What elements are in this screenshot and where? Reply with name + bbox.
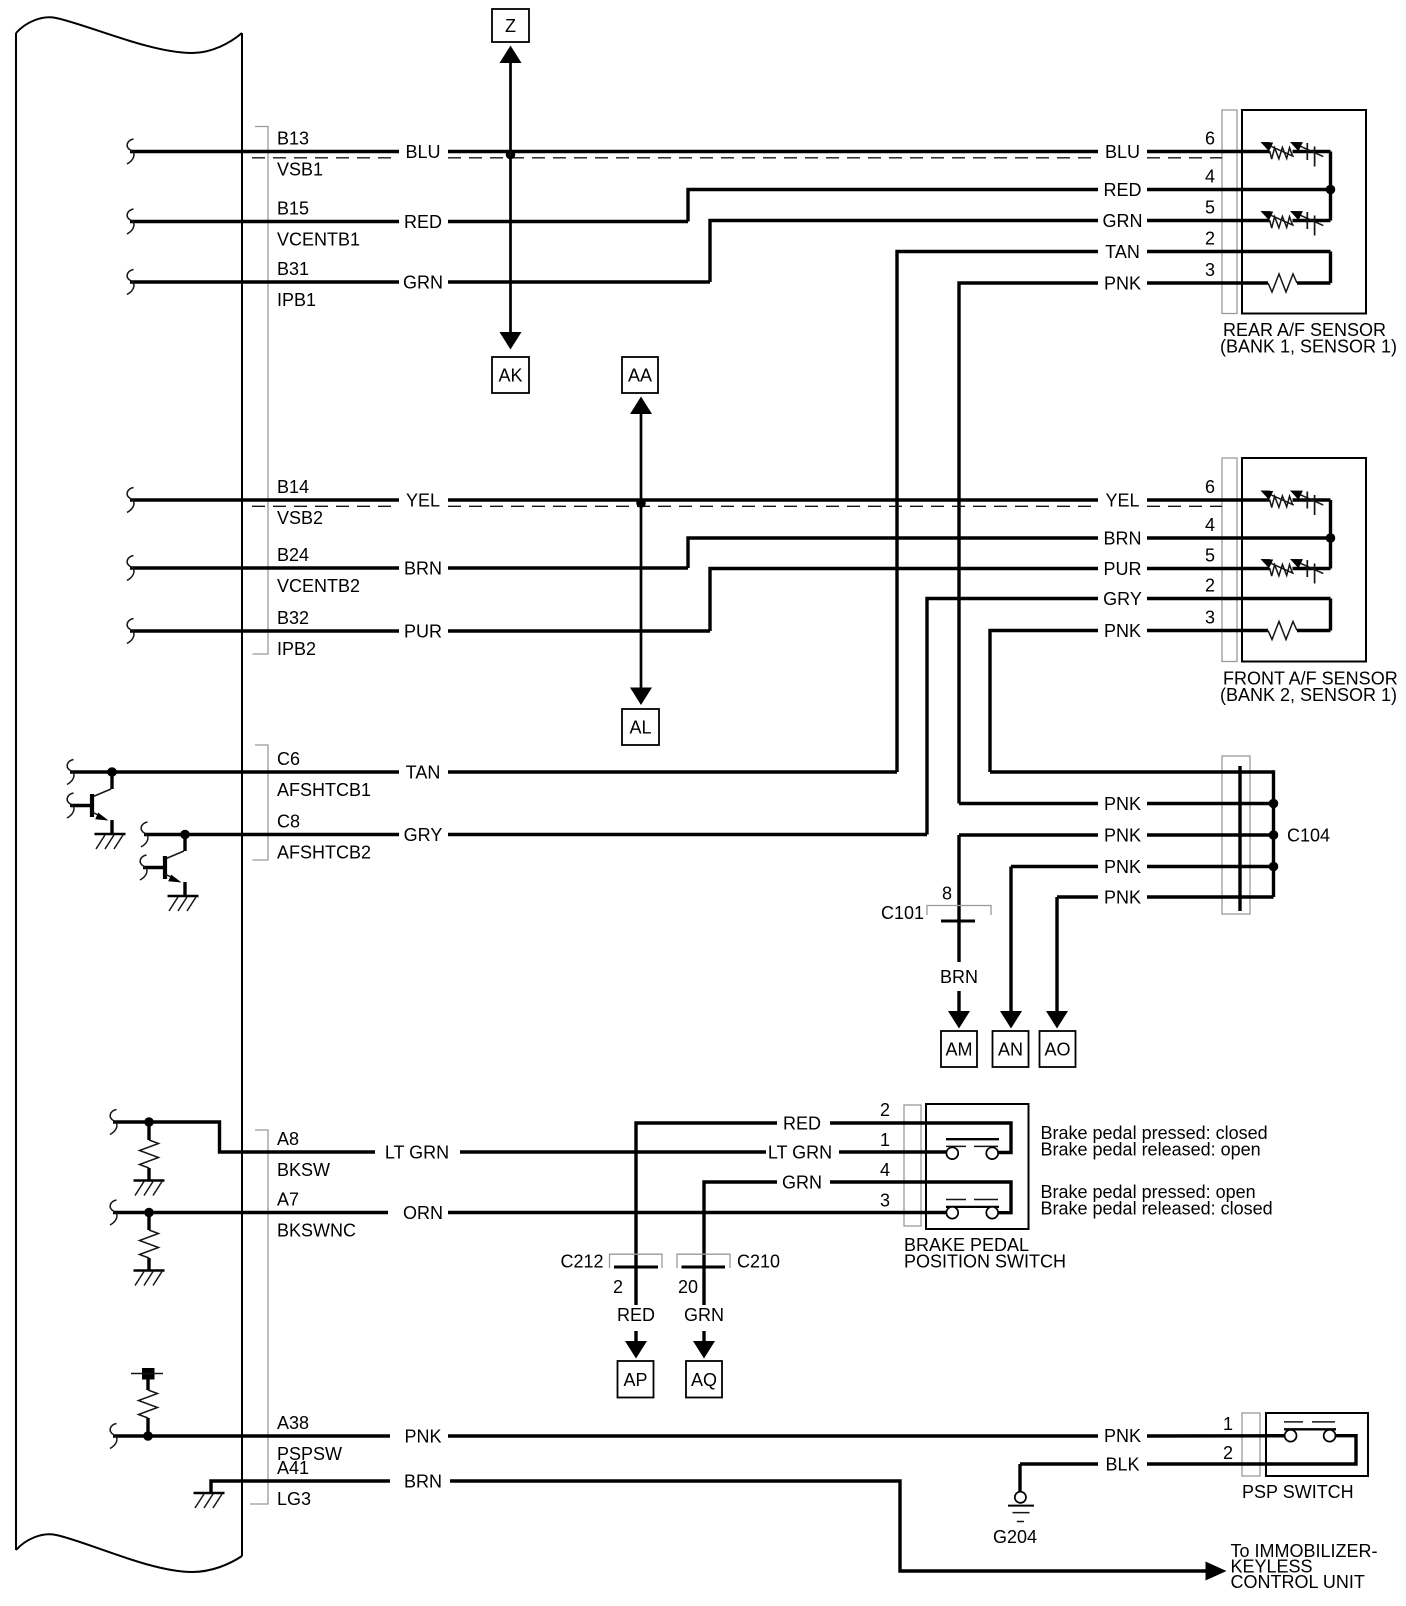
wire C8 AFSHTCB2 GRY row <box>144 833 399 836</box>
svg-text:G204: G204 <box>993 1527 1037 1547</box>
svg-text:C212: C212 <box>560 1252 603 1272</box>
BRAKE PEDAL POSITION SWITCH box <box>926 1104 1029 1229</box>
wire break mark A7 <box>110 1200 117 1225</box>
svg-text:3: 3 <box>1205 260 1215 280</box>
wire B14 VSB2 YEL (solid) <box>130 498 399 501</box>
svg-text:VSB2: VSB2 <box>277 508 323 528</box>
svg-text:RED: RED <box>783 1114 821 1134</box>
junction node C104 bus row1 <box>1269 799 1279 809</box>
wire BLK PSP pin2 to G204 <box>1020 1462 1098 1465</box>
reference box AQ <box>686 1361 722 1398</box>
svg-text:BRN: BRN <box>940 967 978 987</box>
wire A41 LG3 BRN to immobilizer <box>242 1479 390 1482</box>
svg-text:C8: C8 <box>277 812 300 832</box>
wire reference line Z-AK vertical <box>509 61 512 334</box>
svg-text:A41: A41 <box>277 1458 309 1478</box>
svg-text:PNK: PNK <box>1104 888 1141 908</box>
svg-text:AA: AA <box>628 366 652 386</box>
svg-text:5: 5 <box>1205 198 1215 218</box>
svg-text:AN: AN <box>998 1040 1023 1060</box>
FRONT A/F SENSOR box <box>1242 458 1366 662</box>
ECM module body (torn-edge box) <box>16 17 242 1572</box>
wire GRY front sensor pin2 to C8 column <box>1147 597 1242 600</box>
svg-text:(BANK 1, SENSOR 1): (BANK 1, SENSOR 1) <box>1220 337 1397 357</box>
svg-text:BLU: BLU <box>1105 142 1140 162</box>
svg-text:A7: A7 <box>277 1190 299 1210</box>
wire B24 VCENTB2 BRN <box>130 566 399 569</box>
svg-text:PNK: PNK <box>1104 1426 1141 1446</box>
svg-text:BRN: BRN <box>1103 529 1141 549</box>
resistor R3 zigzag <box>139 1390 158 1418</box>
wire break mark C6 <box>67 760 74 785</box>
resistor R2 zigzag <box>140 1230 159 1258</box>
wire A8 BKSW LT GRN <box>113 1122 375 1152</box>
wire break mark Q2 base <box>140 855 147 880</box>
svg-text:BLK: BLK <box>1105 1455 1139 1475</box>
wire PNK row 3 (to AN) <box>1011 865 1098 868</box>
svg-text:2: 2 <box>1205 576 1215 596</box>
wire break mark B13 <box>127 139 134 164</box>
svg-text:TAN: TAN <box>1105 242 1140 262</box>
svg-text:5: 5 <box>1205 546 1215 566</box>
junction node C8/collector <box>180 830 190 840</box>
wire C104 bus <box>1272 770 1275 897</box>
svg-text:YEL: YEL <box>406 491 440 511</box>
wire TAN rear sensor pin2 to C6 column <box>1147 250 1242 253</box>
ground (Q1 emitter) <box>95 834 126 849</box>
svg-text:RED: RED <box>404 212 442 232</box>
junction node A8 pull-up <box>144 1117 154 1127</box>
wire B13 VSB1 BLU (solid) <box>130 150 399 153</box>
svg-text:AM: AM <box>946 1040 973 1060</box>
wire PNK feed from front sensor through C104 <box>990 770 1274 773</box>
brake pedal position switch contact S1 (pins 2-1) <box>926 1123 1011 1159</box>
svg-text:RED: RED <box>1103 180 1141 200</box>
connector C104 pin bar <box>1238 766 1241 911</box>
arrow to AO <box>1046 1011 1068 1029</box>
brake pedal switch connector strip <box>904 1105 921 1226</box>
wire PNK/BRN drop to AM through C101 <box>957 835 960 962</box>
junction node BLU / Z-AK line <box>506 150 516 160</box>
wire B32 IPB2 PUR <box>130 629 399 632</box>
arrow to AQ <box>693 1341 715 1359</box>
wire GRN brake switch pin4 to C210/AQ <box>830 1180 926 1183</box>
svg-text:GRY: GRY <box>404 825 443 845</box>
svg-text:3: 3 <box>1205 608 1215 628</box>
svg-text:VCENTB2: VCENTB2 <box>277 576 360 596</box>
arrow to Z <box>500 46 522 64</box>
connector C104 strip <box>1222 756 1250 914</box>
svg-text:C6: C6 <box>277 749 300 769</box>
wire BLU stripe (dashed companion) <box>252 157 399 159</box>
svg-text:PNK: PNK <box>1104 621 1141 641</box>
wire PNK row 2 (to C101/AM) <box>959 833 1098 836</box>
wire PNK front sensor pin3 to C104 top feed <box>1147 629 1242 632</box>
svg-text:4: 4 <box>880 1160 890 1180</box>
front A/F sensor internal circuit <box>1242 500 1331 631</box>
svg-text:RED: RED <box>617 1305 655 1325</box>
wire PNK drop to AN <box>1009 867 1012 1013</box>
svg-text:AO: AO <box>1044 1040 1070 1060</box>
resistor R2 (BKSWNC pull-up) <box>147 1213 150 1231</box>
svg-text:A8: A8 <box>277 1129 299 1149</box>
junction node C6/collector <box>107 767 117 777</box>
rear A/F sensor connector strip <box>1222 110 1237 314</box>
ECM pin bracket A8-A41 <box>250 1130 268 1504</box>
svg-text:PNK: PNK <box>1104 274 1141 294</box>
arrow to AL (down) <box>630 688 652 706</box>
svg-text:1: 1 <box>1223 1414 1233 1434</box>
svg-text:PUR: PUR <box>1103 559 1141 579</box>
svg-text:VCENTB1: VCENTB1 <box>277 230 360 250</box>
ECM pin bracket C6-C8 <box>253 745 269 860</box>
front A/F sensor connector strip <box>1222 458 1237 662</box>
resistor rear sensor heater <box>1268 274 1297 292</box>
svg-text:VSB1: VSB1 <box>277 160 323 180</box>
svg-text:PNK: PNK <box>404 1427 441 1447</box>
svg-text:GRN: GRN <box>684 1305 724 1325</box>
svg-text:AK: AK <box>498 366 522 386</box>
wire break mark Q1 base <box>67 793 74 818</box>
junction node A7 pull-up <box>144 1208 154 1218</box>
resistor front sensor heater <box>1268 622 1297 640</box>
svg-text:C101: C101 <box>881 903 924 923</box>
svg-text:GRN: GRN <box>1103 211 1143 231</box>
svg-text:2: 2 <box>1223 1443 1233 1463</box>
svg-text:6: 6 <box>1205 129 1215 149</box>
svg-text:BRN: BRN <box>404 559 442 579</box>
PSP switch internal contact <box>1266 1422 1356 1464</box>
svg-text:LG3: LG3 <box>277 1489 311 1509</box>
svg-text:1: 1 <box>880 1130 890 1150</box>
connector C212 <box>610 1254 663 1268</box>
reference box Z <box>492 9 529 42</box>
svg-text:4: 4 <box>1205 515 1215 535</box>
resistor R1 (BKSW pull-up) <box>147 1122 150 1140</box>
transistor Q2 AF heater driver 2 <box>140 830 190 896</box>
svg-text:AQ: AQ <box>691 1370 717 1390</box>
ground (A41 LG3 internal) <box>211 1481 242 1492</box>
brake pedal position switch contact S2 (pins 4-3) <box>926 1182 1011 1219</box>
ground symbol A41 <box>194 1493 225 1508</box>
ground G204 <box>1008 1492 1034 1522</box>
wire YEL stripe (dashed companion) <box>252 505 399 507</box>
PSP switch connector strip <box>1242 1413 1260 1476</box>
reference box AP <box>618 1361 654 1398</box>
connector C101 <box>927 906 991 922</box>
svg-text:Z: Z <box>505 16 516 36</box>
svg-text:PNK: PNK <box>1104 857 1141 877</box>
svg-text:GRN: GRN <box>782 1173 822 1193</box>
resistor R1 zigzag <box>140 1140 159 1168</box>
reference box AK <box>492 357 529 393</box>
connector C210 <box>677 1254 730 1268</box>
arrow to AM <box>948 1011 970 1029</box>
sensing element front pin5 <box>1261 559 1324 584</box>
ECM pin bracket B13-B32 <box>253 127 269 655</box>
junction node A38 <box>143 1431 153 1441</box>
sensing element rear pin6 <box>1261 142 1324 167</box>
junction node YEL / AA-AL line <box>636 498 646 508</box>
wire break mark B14 <box>127 488 134 513</box>
svg-text:AP: AP <box>623 1370 647 1390</box>
ground (R1) <box>134 1181 165 1196</box>
svg-text:C210: C210 <box>737 1252 780 1272</box>
wire B31 IPB1 GRN <box>130 280 399 283</box>
wire C6 AFSHTCB1 TAN row <box>70 770 399 773</box>
svg-text:6: 6 <box>1205 477 1215 497</box>
reference box AN <box>993 1031 1029 1067</box>
sensing element front pin6 <box>1261 491 1324 516</box>
svg-text:4: 4 <box>1205 167 1215 187</box>
svg-text:IPB1: IPB1 <box>277 290 316 310</box>
wire RED brake switch pin2 to C212/AP <box>830 1121 926 1124</box>
svg-text:B15: B15 <box>277 199 309 219</box>
svg-text:B14: B14 <box>277 477 309 497</box>
junction node rear sensor common <box>1326 185 1336 195</box>
svg-text:B32: B32 <box>277 608 309 628</box>
wire break mark B15 <box>127 209 134 234</box>
wire break mark A8 <box>110 1110 117 1135</box>
arrow to AP <box>625 1341 647 1359</box>
wire PNK rear sensor pin3 to C104 row1 <box>1147 281 1242 284</box>
svg-text:B13: B13 <box>277 129 309 149</box>
svg-text:AL: AL <box>629 718 651 738</box>
svg-text:BRN: BRN <box>404 1472 442 1492</box>
svg-text:B31: B31 <box>277 259 309 279</box>
svg-text:2: 2 <box>613 1277 623 1297</box>
wire PNK row 1 (from rear sensor) <box>959 802 1098 805</box>
wire PNK drop to AO <box>1055 897 1058 1012</box>
svg-text:AFSHTCB1: AFSHTCB1 <box>277 780 371 800</box>
svg-text:C104: C104 <box>1287 826 1330 846</box>
transistor Q1 AF heater driver 1 <box>67 767 117 834</box>
svg-text:LT GRN: LT GRN <box>768 1143 832 1163</box>
svg-text:BKSWNC: BKSWNC <box>277 1221 356 1241</box>
svg-text:PSP SWITCH: PSP SWITCH <box>1242 1482 1354 1502</box>
svg-text:PUR: PUR <box>404 622 442 642</box>
svg-text:IPB2: IPB2 <box>277 639 316 659</box>
svg-text:20: 20 <box>678 1277 698 1297</box>
wire break mark A38 <box>110 1424 117 1449</box>
svg-text:3: 3 <box>880 1191 890 1211</box>
arrow to AN <box>1000 1011 1022 1029</box>
reference box AL <box>622 709 659 745</box>
svg-text:8: 8 <box>942 884 952 904</box>
sensing element rear pin5 <box>1261 211 1324 236</box>
svg-text:BKSW: BKSW <box>277 1160 330 1180</box>
ground (Q2 emitter) <box>168 896 199 911</box>
svg-text:PNK: PNK <box>1104 794 1141 814</box>
REAR A/F SENSOR box <box>1242 110 1366 314</box>
svg-text:(BANK 2, SENSOR 1): (BANK 2, SENSOR 1) <box>1220 685 1397 705</box>
svg-text:YEL: YEL <box>1105 491 1139 511</box>
svg-text:Brake pedal released: closed: Brake pedal released: closed <box>1041 1199 1273 1219</box>
svg-text:2: 2 <box>880 1100 890 1120</box>
svg-text:ORN: ORN <box>403 1203 443 1223</box>
wire break mark B31 <box>127 270 134 295</box>
svg-text:AFSHTCB2: AFSHTCB2 <box>277 843 371 863</box>
wire A38 PSPSW PNK <box>113 1434 390 1437</box>
reference box AM <box>941 1031 977 1067</box>
wire break mark C8 <box>141 822 148 847</box>
svg-text:Brake pedal released: open: Brake pedal released: open <box>1041 1140 1261 1160</box>
wire break mark B32 <box>127 619 134 644</box>
svg-text:2: 2 <box>1205 229 1215 249</box>
wire B15 VCENTB1 RED <box>130 220 399 223</box>
wire PNK row 4 (to AO) <box>1057 895 1098 898</box>
svg-text:B24: B24 <box>277 545 309 565</box>
arrow to immobilizer-keyless control unit <box>1206 1562 1227 1581</box>
reference box AA <box>622 357 658 393</box>
svg-text:PNK: PNK <box>1104 826 1141 846</box>
svg-text:POSITION SWITCH: POSITION SWITCH <box>904 1252 1066 1272</box>
PSP SWITCH box <box>1266 1413 1368 1476</box>
junction node front sensor common <box>1326 533 1336 543</box>
wire A7 BKSWNC ORN <box>113 1211 388 1214</box>
reference box AO <box>1040 1031 1076 1067</box>
arrow to AA (up) <box>630 397 652 415</box>
power node (A38 pull-up supply, filled square) <box>131 1368 163 1380</box>
resistor R3 (PSPSW pull-up) <box>146 1380 149 1391</box>
svg-text:GRY: GRY <box>1103 589 1142 609</box>
svg-text:CONTROL UNIT: CONTROL UNIT <box>1231 1572 1365 1592</box>
wire reference line AA-AL vertical <box>640 412 643 690</box>
junction node C104 bus row3 <box>1269 862 1279 872</box>
wire break mark B24 <box>127 556 134 581</box>
ground (R2) <box>134 1271 165 1286</box>
svg-text:TAN: TAN <box>406 763 441 783</box>
svg-text:LT GRN: LT GRN <box>385 1143 449 1163</box>
arrow to AK <box>500 332 522 350</box>
svg-text:A38: A38 <box>277 1413 309 1433</box>
svg-text:GRN: GRN <box>403 273 443 293</box>
rear A/F sensor internal circuit <box>1242 152 1331 284</box>
junction node C104 bus row2 <box>1269 830 1279 840</box>
svg-text:BLU: BLU <box>405 142 440 162</box>
